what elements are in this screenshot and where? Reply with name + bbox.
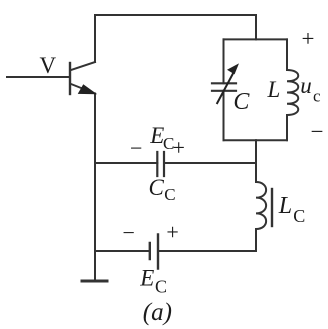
transistor Q1 emitter arrow: [79, 85, 95, 93]
capacitor C plates: [212, 83, 236, 91]
wire tank left lower: [223, 91, 225, 140]
wire tank bottom: [224, 139, 288, 141]
wire bottom left: [95, 250, 150, 252]
ground: [82, 280, 107, 283]
wire top rail: [95, 14, 256, 16]
wire tank feed top: [255, 15, 257, 39]
svg-text:L: L: [267, 77, 281, 102]
inductor L: [287, 70, 298, 115]
inductor L_C: [256, 182, 266, 229]
svg-text:C: C: [155, 276, 167, 296]
wire ground stub: [94, 251, 96, 281]
wire LC bottom lead: [255, 229, 257, 251]
wire collector vertical: [94, 15, 96, 62]
svg-text:E: E: [139, 265, 154, 290]
wire emitter vertical: [94, 94, 96, 252]
svg-text:−: −: [130, 135, 142, 160]
wire LC top lead: [255, 163, 257, 182]
wire bottom right: [158, 250, 256, 252]
battery E_C plates: [150, 235, 158, 269]
svg-text:c: c: [313, 87, 321, 106]
core bar of L_C: [271, 189, 273, 226]
transistor Q1 collector lead: [71, 62, 95, 70]
wire tank feed bottom: [255, 140, 257, 163]
wire base lead: [7, 76, 70, 78]
svg-text:C: C: [233, 89, 250, 115]
capacitor C arrow: [217, 65, 238, 105]
svg-text:C: C: [293, 206, 305, 226]
wire tank left upper: [223, 39, 225, 83]
capacitor C_C plates: [157, 152, 164, 176]
wire middle left: [95, 162, 157, 164]
svg-text:L: L: [278, 193, 292, 219]
svg-text:u: u: [300, 73, 312, 98]
svg-text:+: +: [173, 135, 185, 160]
wire tank right lower: [286, 115, 288, 140]
svg-text:−: −: [123, 220, 135, 245]
transistor Q1 emitter lead: [71, 84, 95, 94]
wire middle right: [164, 162, 256, 164]
svg-text:+: +: [302, 26, 315, 51]
svg-text:V: V: [40, 53, 57, 78]
svg-text:C: C: [149, 175, 165, 200]
svg-text:+: +: [166, 220, 178, 245]
svg-text:−: −: [311, 119, 324, 144]
transistor Q1 base bar: [69, 63, 71, 94]
svg-text:C: C: [164, 185, 175, 204]
wire tank right upper: [286, 39, 288, 70]
svg-text:(a): (a): [143, 299, 172, 326]
wire tank top: [224, 38, 288, 40]
